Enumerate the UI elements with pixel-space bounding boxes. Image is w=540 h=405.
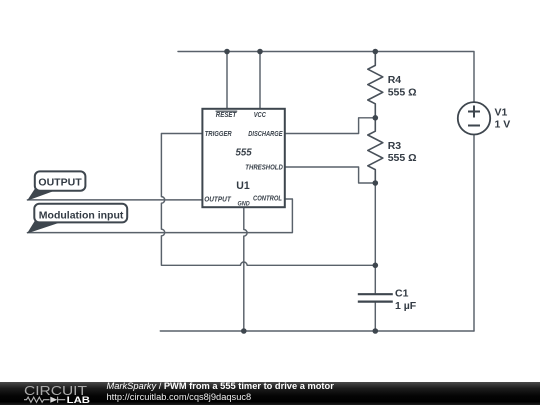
junction dot C1 top node	[373, 263, 379, 269]
svg-text:CONTROL: CONTROL	[253, 194, 282, 203]
reference designator U1	[236, 180, 249, 192]
pin label VCC	[254, 110, 267, 119]
pin label GND	[238, 201, 250, 208]
wire V1 bottom lead	[473, 134, 475, 331]
resistor R3	[368, 118, 383, 183]
svg-text:VCC: VCC	[254, 110, 267, 119]
wire R3 bottom to C1 top node	[374, 183, 376, 265]
resistor R4	[368, 52, 383, 118]
junction dot R3/threshold	[373, 180, 379, 186]
label V1 value	[495, 106, 511, 130]
svg-text:TRIGGER: TRIGGER	[205, 129, 232, 138]
svg-text:DISCHARGE: DISCHARGE	[248, 129, 283, 138]
wire top rail to V1	[178, 52, 474, 103]
svg-text:V1: V1	[495, 106, 508, 118]
svg-text:U1: U1	[236, 180, 249, 192]
wire DISCHARGE to R4/R3 junction	[285, 118, 376, 134]
junction dot bottom rail C1	[373, 328, 379, 334]
svg-text:555: 555	[236, 147, 252, 158]
svg-text:555 Ω: 555 Ω	[388, 152, 417, 164]
wire Modulation input flag to CONTROL pin	[27, 199, 292, 233]
svg-text:LAB: LAB	[67, 395, 91, 405]
capacitor C1 leads	[374, 265, 376, 331]
wire VCC drop	[259, 52, 261, 109]
credit line 2	[107, 393, 252, 402]
wire bottom rail	[160, 330, 474, 332]
junction dot top rail VCC	[257, 49, 263, 55]
svg-text:THRESHOLD: THRESHOLD	[245, 163, 283, 172]
svg-text:C1: C1	[395, 288, 409, 300]
junction dot top rail RESET	[224, 49, 230, 55]
pin label CONTROL	[253, 194, 282, 203]
IC type label 555	[236, 147, 252, 158]
junction dot R4/R3/discharge	[373, 115, 379, 121]
svg-text:555 Ω: 555 Ω	[388, 86, 417, 98]
CircuitLab logo	[22, 383, 94, 405]
pin label OUTPUT	[204, 195, 232, 204]
wire RESET drop	[226, 52, 228, 109]
junction dot top rail R4	[373, 49, 379, 55]
pin label RESET with overline	[216, 110, 238, 119]
wire GND down to bottom rail (hop over control wire)	[244, 207, 247, 331]
wire OUTPUT flag to OUTPUT pin	[27, 199, 202, 201]
label R4 value	[388, 74, 417, 98]
junction dot bottom rail GND	[241, 328, 247, 334]
wire THRESHOLD to R3 bottom junction	[285, 167, 376, 183]
credit line 1	[107, 382, 334, 391]
op-amp/timer IC U1 box	[202, 109, 284, 207]
svg-text:OUTPUT: OUTPUT	[204, 195, 232, 204]
pin label DISCHARGE	[248, 129, 283, 138]
svg-text:1 µF: 1 µF	[395, 300, 417, 312]
pin label THRESHOLD	[245, 163, 283, 172]
pin label TRIGGER	[205, 129, 232, 138]
node flag OUTPUT	[27, 171, 85, 200]
wire TRIGGER to left column down to threshold node (hops)	[161, 134, 375, 266]
svg-text:1 V: 1 V	[495, 119, 511, 131]
svg-text:R3: R3	[388, 140, 402, 152]
svg-text:Modulation input: Modulation input	[39, 209, 124, 221]
label R3 value	[388, 140, 417, 164]
footer bar	[0, 382, 540, 405]
svg-text:GND: GND	[238, 201, 250, 208]
label C1 value	[395, 288, 417, 312]
voltage source V1	[458, 102, 490, 134]
node flag Modulation input	[27, 204, 127, 234]
capacitor C1 plates	[358, 294, 393, 301]
svg-text:R4: R4	[388, 74, 402, 86]
svg-text:OUTPUT: OUTPUT	[38, 177, 82, 188]
